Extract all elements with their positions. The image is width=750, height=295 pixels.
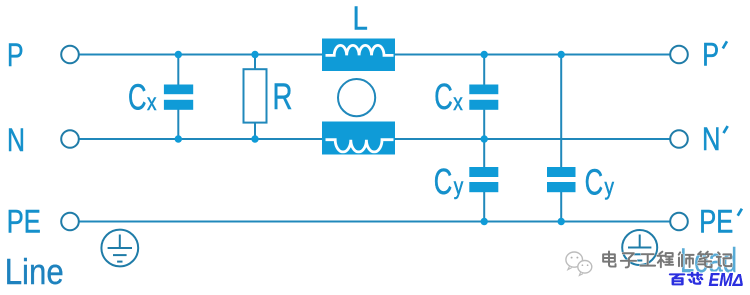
junction dot N/right-Cx — [481, 135, 488, 142]
label N — [7, 122, 25, 158]
svg-text:y: y — [454, 173, 464, 199]
junction dot P/left-Cx — [175, 51, 182, 58]
svg-text:N: N — [7, 122, 25, 158]
label P — [7, 37, 24, 73]
terminal N (left) — [61, 130, 79, 148]
svg-text:x: x — [147, 89, 157, 115]
terminal PE' (right) — [670, 213, 688, 231]
svg-text:P: P — [7, 37, 24, 73]
junction dot P/right-Cx — [481, 51, 488, 58]
wire left Cy branch upper — [483, 139, 485, 168]
watermark text 电子工程师笔记 — [603, 251, 731, 267]
wire right Cy branch lower — [560, 191, 562, 222]
label Line — [5, 251, 64, 292]
terminal P (left) — [61, 46, 79, 64]
wire right Cx branch lower — [483, 104, 485, 139]
svg-text:PE: PE — [699, 203, 733, 239]
wire PE line — [79, 221, 669, 223]
watermark logo 百芯EMA — [670, 270, 743, 290]
wire right Cx branch upper — [483, 55, 485, 91]
watermark wechat icon — [566, 252, 592, 275]
wire left Cx branch lower — [177, 104, 179, 139]
label L — [353, 0, 368, 37]
svg-text:C: C — [128, 76, 147, 117]
svg-text:C: C — [434, 161, 453, 202]
wire N line — [79, 138, 669, 140]
svg-text:R: R — [273, 75, 293, 117]
svg-text:y: y — [605, 173, 615, 199]
svg-text:P: P — [702, 36, 719, 72]
svg-text:N: N — [702, 121, 721, 157]
svg-text:Line: Line — [5, 251, 64, 292]
capacitor Cy (right) plates — [547, 167, 576, 192]
capacitor Cx (left) plates — [164, 85, 193, 110]
label R — [273, 75, 293, 117]
inductor L bottom winding block — [322, 122, 395, 155]
label Cy (left) — [434, 161, 464, 202]
junction dot P/R — [251, 51, 258, 58]
label PE' — [699, 203, 741, 239]
label N' — [702, 121, 727, 157]
choke core circle — [338, 79, 375, 116]
ground symbol left — [101, 230, 138, 267]
label Cx (right) — [434, 76, 463, 117]
capacitor Cx (right) plates — [469, 85, 498, 110]
junction dot N/left-Cx — [175, 135, 182, 142]
terminal PE (left) — [61, 213, 79, 231]
svg-text:EMΔ: EMΔ — [709, 270, 744, 290]
wire R branch lower — [254, 123, 256, 139]
label Load — [680, 242, 737, 280]
terminal N' (right) — [670, 130, 688, 148]
junction dot N/R — [251, 135, 258, 142]
junction dot P/right-Cy — [558, 51, 565, 58]
svg-text:PE: PE — [7, 203, 41, 239]
svg-text:C: C — [585, 161, 604, 202]
label PE — [7, 203, 41, 239]
wire left Cy branch lower — [483, 191, 485, 222]
capacitor Cy (left) plates — [469, 167, 498, 192]
terminal P' (right) — [670, 46, 688, 64]
junction dot PE/right-Cy — [558, 218, 565, 225]
svg-text:L: L — [353, 0, 368, 37]
svg-text:C: C — [434, 76, 453, 117]
wire right Cy branch upper — [560, 55, 562, 169]
label Cy (right) — [585, 161, 615, 202]
wire left Cx branch upper — [177, 55, 179, 91]
wire R branch upper — [254, 55, 256, 70]
resistor R — [244, 69, 267, 122]
inductor L top winding block — [322, 39, 395, 72]
ground symbol right — [622, 230, 657, 265]
label P' — [702, 36, 726, 72]
label Cx (left) — [128, 76, 157, 117]
svg-text:x: x — [453, 89, 463, 115]
wire P line — [79, 54, 669, 56]
junction dot PE/left-Cy — [481, 218, 488, 225]
